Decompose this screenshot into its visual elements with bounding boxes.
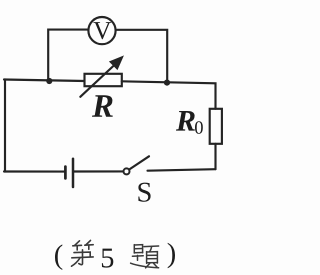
- caption: hanzi TI (题) drawn strokes: [131, 245, 159, 268]
- switch S lever: [129, 156, 149, 169]
- rheostat R arrow: [80, 56, 123, 97]
- label R (rheostat value label): [92, 95, 113, 117]
- wire: bottom rail right segment (corner to switch contact): [148, 169, 216, 171]
- wire: voltmeter branch left riser and top horizontal: [48, 30, 88, 81]
- node A junction dot: [46, 78, 52, 84]
- caption: hanzi DI (第) drawn strokes: [72, 240, 94, 266]
- battery BT1 short plate (negative): [64, 167, 67, 179]
- node B junction dot: [164, 80, 170, 86]
- voltmeter V1 label V: [93, 22, 111, 39]
- wire: bottom rail middle segment (battery to switch): [74, 170, 123, 172]
- wire: top rail right segment (rheostat to top-right corner): [122, 81, 216, 109]
- wire: right vertical below R0 to bottom-right corner: [214, 144, 216, 169]
- rheostat R (rectangle body): [85, 74, 122, 86]
- wire: bottom rail left segment (left corner to battery): [4, 170, 64, 172]
- label S (switch): [138, 183, 150, 202]
- label R0: [176, 111, 203, 134]
- switch S pivot circle: [124, 168, 130, 174]
- caption: right parenthesis of (第 5 题): [168, 243, 175, 269]
- wire: top rail left segment (left corner to rheostat): [4, 80, 85, 82]
- caption: numeral 5: [102, 249, 113, 268]
- battery BT1 long plate (positive): [72, 159, 75, 187]
- resistor R0 (rectangle body): [210, 109, 222, 144]
- wire: voltmeter branch top horizontal right + right riser: [117, 30, 168, 83]
- voltmeter V1: [88, 17, 115, 44]
- wire: left vertical side of main loop: [4, 80, 6, 172]
- caption: left parenthesis of (第 5 题): [55, 244, 62, 270]
